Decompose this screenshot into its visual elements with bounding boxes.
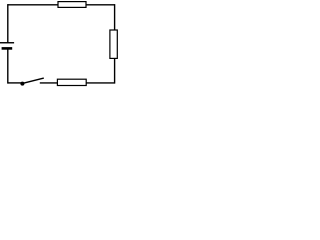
- wire right lower segment: [114, 58, 116, 83]
- wire left lower segment: [7, 48, 9, 83]
- wire left upper segment: [7, 4, 9, 43]
- battery B1 short plate: [2, 47, 13, 50]
- switch S1 blade: [22, 78, 43, 83]
- switch S1 pivot dot: [20, 82, 24, 86]
- wire right upper segment: [114, 4, 116, 30]
- resistor R2 right: [110, 30, 117, 58]
- wire bottom-left segment (corner to switch dot): [8, 82, 23, 84]
- wire bottom middle segment (switch right terminal to resistor): [40, 82, 58, 84]
- wire top-left segment: [8, 4, 58, 6]
- wire bottom-right segment: [86, 82, 114, 84]
- battery B1 long plate: [0, 42, 14, 44]
- resistor R3 bottom: [57, 79, 86, 85]
- resistor R1 top: [58, 2, 86, 8]
- wire top-right segment: [86, 4, 115, 6]
